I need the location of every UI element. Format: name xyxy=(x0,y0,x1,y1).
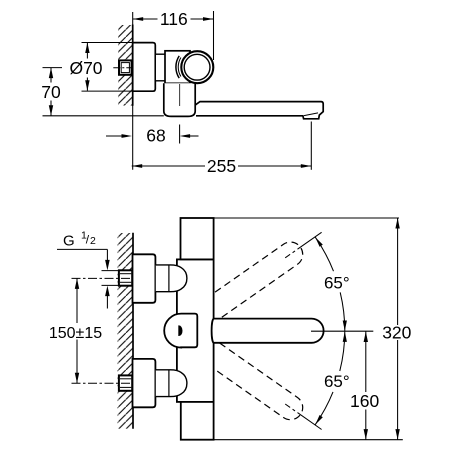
top cap xyxy=(181,218,214,259)
svg-text:320: 320 xyxy=(382,322,411,342)
spout (side view) xyxy=(195,102,323,119)
upper check-valve dome xyxy=(156,265,187,292)
svg-text:68: 68 xyxy=(146,126,165,146)
svg-text:Ø70: Ø70 xyxy=(69,58,102,78)
svg-text:65°: 65° xyxy=(324,372,350,391)
dashed spout, rotated up xyxy=(184,242,303,333)
svg-text:65°: 65° xyxy=(324,273,350,292)
svg-text:160: 160 xyxy=(350,391,379,411)
svg-text:2: 2 xyxy=(90,235,96,247)
dim 160 xyxy=(350,332,379,440)
svg-text:255: 255 xyxy=(207,156,236,176)
fitting centerline xyxy=(113,67,134,69)
knob outer circle xyxy=(181,51,213,83)
dim 320 xyxy=(382,218,411,440)
dim 116 xyxy=(133,9,214,60)
bottom extension line xyxy=(214,439,403,441)
spout (plan view) xyxy=(212,319,324,343)
fitting centerlines (dash-dot) xyxy=(72,277,137,279)
wall face line xyxy=(132,12,134,170)
lower check-valve dome xyxy=(156,370,187,397)
escutcheon upper xyxy=(133,254,156,302)
wall hatch xyxy=(118,233,133,429)
dim 255 xyxy=(132,122,312,177)
knob (plan view) xyxy=(164,314,197,348)
wall hatch xyxy=(118,25,133,106)
dim G 1/2 xyxy=(57,230,119,309)
dim O70 xyxy=(69,43,132,92)
knob skirt arcs xyxy=(176,56,179,78)
dim 150+-15 xyxy=(49,278,102,383)
escutcheon xyxy=(133,43,156,92)
G1/2 fitting (top view) xyxy=(119,60,132,74)
dashed spout, rotated down xyxy=(184,329,303,420)
valve block xyxy=(165,51,190,84)
downtube centerline xyxy=(179,84,181,106)
knob inner circle xyxy=(184,54,210,80)
dim 70 xyxy=(41,68,164,116)
escutcheon lower xyxy=(133,359,156,407)
svg-text:116: 116 xyxy=(160,9,188,29)
lower union fitting xyxy=(119,375,132,390)
svg-text:150±15: 150±15 xyxy=(49,325,102,342)
downtube xyxy=(164,83,195,116)
svg-text:70: 70 xyxy=(41,82,61,102)
swing arc 65deg xyxy=(315,237,345,425)
dim 68 xyxy=(106,125,199,146)
svg-text:G: G xyxy=(63,233,75,250)
spout centerline xyxy=(311,330,373,332)
wall face line xyxy=(132,233,134,429)
bottom cap xyxy=(181,402,214,440)
knob button (black) xyxy=(178,325,182,336)
axis lines dash-dot xyxy=(285,232,321,257)
body column xyxy=(177,259,214,402)
upper union fitting xyxy=(119,270,132,285)
neck xyxy=(155,54,167,81)
top extension line xyxy=(214,217,399,219)
